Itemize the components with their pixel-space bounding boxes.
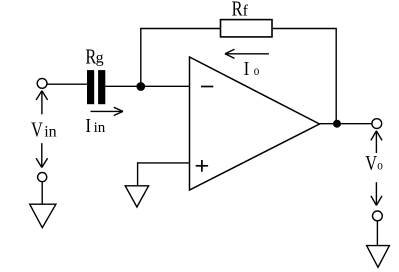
- resistor Rf: [221, 20, 273, 37]
- node Vo output terminal: [372, 119, 382, 129]
- arrow Iin pointing right: [91, 107, 124, 115]
- wire non-inverting input: [138, 162, 190, 164]
- wire junction A to op-amp inverting input: [141, 85, 190, 87]
- svg-text:in: in: [94, 120, 106, 136]
- junction node B dot: [333, 120, 341, 128]
- label Io: [244, 58, 260, 81]
- svg-text:I: I: [244, 58, 250, 81]
- label Vo: [365, 152, 383, 175]
- arrow Io pointing left: [225, 49, 269, 58]
- lower left reference terminal: [38, 173, 47, 182]
- svg-text:R: R: [232, 0, 243, 21]
- svg-text:o: o: [254, 63, 260, 78]
- wire junction A up to feedback: [140, 29, 142, 87]
- ground symbol at op-amp plus input: [125, 186, 148, 207]
- svg-text:V: V: [31, 118, 43, 141]
- capacitor-style element Rg left plate: [87, 70, 94, 104]
- wire Rg to junction A: [105, 85, 140, 87]
- ground symbol lower right: [367, 246, 390, 268]
- op-amp inverting input minus sign: [201, 86, 213, 88]
- arrow up toward Vin input terminal: [36, 91, 48, 115]
- op-amp non-inverting input plus sign: [196, 160, 208, 172]
- arrow down toward lower left terminal: [36, 143, 48, 167]
- wire lower right terminal to ground: [376, 221, 378, 246]
- wire input terminal to Rg: [47, 83, 87, 85]
- lower right reference terminal: [373, 211, 383, 221]
- svg-text:o: o: [377, 157, 383, 172]
- arrow down toward lower right terminal: [371, 182, 382, 205]
- svg-text:g: g: [96, 50, 104, 67]
- wire feedback top right segment: [272, 28, 336, 30]
- label Rf: [232, 0, 249, 21]
- wire down to middle ground: [137, 162, 139, 186]
- svg-text:in: in: [44, 123, 56, 140]
- wire op-amp output to node B: [320, 123, 373, 125]
- ground symbol lower left: [30, 204, 56, 228]
- label Iin: [85, 115, 105, 138]
- svg-text:I: I: [85, 115, 91, 138]
- node Vin input terminal: [37, 79, 47, 89]
- label Rg: [85, 46, 103, 69]
- capacitor-style element Rg right plate: [98, 70, 105, 104]
- arrow up toward output terminal: [371, 131, 382, 153]
- label Vin: [31, 118, 57, 141]
- op-amp U1 triangle: [190, 57, 320, 190]
- wire lower left terminal to ground: [41, 182, 43, 205]
- wire feedback top left segment: [140, 28, 220, 30]
- wire feedback right vertical down to output node: [335, 28, 337, 124]
- junction A dot: [136, 82, 145, 91]
- svg-text:V: V: [365, 152, 377, 175]
- svg-text:f: f: [243, 3, 249, 20]
